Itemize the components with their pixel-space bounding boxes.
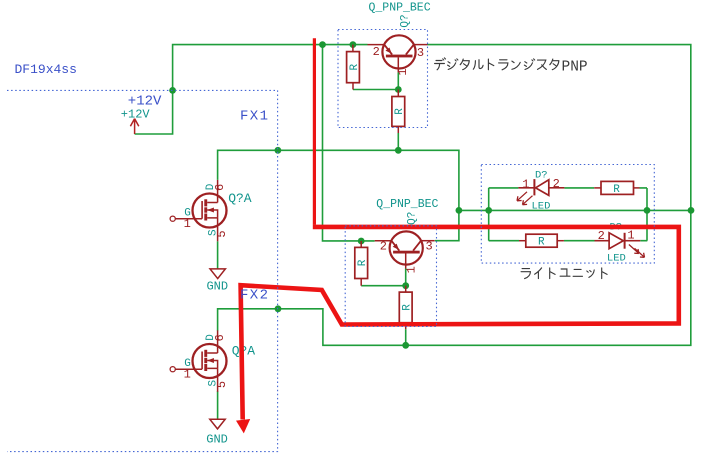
svg-text:6: 6 <box>213 184 227 191</box>
svg-text:2: 2 <box>380 239 387 253</box>
svg-text:Q_PNP_BEC: Q_PNP_BEC <box>376 198 438 211</box>
svg-text:1: 1 <box>405 266 419 273</box>
connector box DF19x4ss (dashed) <box>7 90 278 451</box>
wire LED row 2 <box>489 240 648 242</box>
svg-text:5: 5 <box>215 381 229 388</box>
note text light unit (katakana strokes) <box>521 268 607 279</box>
wire M1 source to GND <box>217 241 219 269</box>
transistor M1 Q?A (NMOS top) <box>170 180 226 241</box>
wire LED row 1 <box>489 187 647 189</box>
svg-text:GND: GND <box>206 280 228 294</box>
svg-text:1: 1 <box>627 229 634 243</box>
transistor Q2 Q_PNP_BEC (middle) <box>375 231 435 268</box>
junction LED rail left <box>456 207 463 214</box>
junction LED box left vertical <box>485 207 492 214</box>
イ <box>535 268 542 279</box>
ジ <box>448 59 458 70</box>
ト <box>550 268 555 279</box>
svg-text:LED: LED <box>532 201 551 213</box>
svg-text:GND: GND <box>206 432 228 446</box>
wire LED unit left vertical <box>488 188 490 241</box>
ン <box>512 61 520 69</box>
ニ <box>573 269 582 276</box>
ト <box>488 59 493 70</box>
ground GND2 symbol <box>210 419 225 429</box>
junction LED box right vertical <box>644 207 651 214</box>
svg-text:2: 2 <box>553 177 560 191</box>
svg-text:Q?: Q? <box>399 14 411 27</box>
svg-text:R: R <box>357 259 369 266</box>
wire FX1 from M1 drain to LED rail and Q2 collector <box>218 150 459 240</box>
ground GND1 symbol <box>210 269 225 279</box>
svg-text:LED: LED <box>607 252 626 264</box>
LED D1 (top, pointing left) <box>517 179 564 205</box>
wire R1 bottom to Q1 base junction <box>353 72 398 89</box>
svg-text:R: R <box>613 184 620 196</box>
junction FX2 on connector box edge <box>275 305 282 312</box>
wire M2 source to GND <box>217 391 219 419</box>
ス <box>538 60 547 69</box>
svg-text:6: 6 <box>213 334 227 341</box>
svg-text:1: 1 <box>396 68 410 75</box>
junction bottom rail / R4 <box>402 342 409 349</box>
svg-text:Q?A: Q?A <box>228 191 252 206</box>
ッ <box>587 270 594 277</box>
box Q1 digital transistor (dashed) <box>338 30 428 128</box>
resistor R6 (LED row 2) <box>519 234 564 248</box>
power symbol +12V <box>130 119 138 134</box>
svg-text:R: R <box>402 304 414 311</box>
ル <box>473 60 483 69</box>
junction FX1 on connector box edge <box>275 147 282 154</box>
junction Q2 emitter rail / R3 top <box>358 238 365 245</box>
resistor R5 (LED row 1) <box>594 181 639 195</box>
resistor R1 (Q1 base-emitter) <box>347 45 361 90</box>
svg-text:R: R <box>349 64 361 71</box>
annotation red arrowhead <box>236 419 250 433</box>
svg-text:R: R <box>538 237 545 249</box>
デ <box>435 58 446 70</box>
note text digital transistor PNP (katakana strokes) <box>435 58 559 70</box>
wire R4 bottom to bottom rail <box>405 329 407 345</box>
svg-text:3: 3 <box>417 46 424 60</box>
svg-text:1: 1 <box>522 178 529 192</box>
wire LED unit right vertical <box>646 188 648 241</box>
svg-text:1: 1 <box>184 368 191 382</box>
svg-text:R: R <box>394 108 406 115</box>
ジ <box>524 59 534 70</box>
wire +12V symbol to +12V rail <box>135 45 368 134</box>
resistor R2 (Q1 base series) <box>392 90 406 134</box>
ト <box>602 268 607 279</box>
resistor R3 (Q2 base-emitter) <box>355 241 369 286</box>
transistor M2 Q?A (NMOS bottom) <box>170 330 226 391</box>
svg-text:1: 1 <box>184 217 191 231</box>
junction +12V on connector box edge <box>169 87 176 94</box>
transistor Q1 Q_PNP_BEC (top) <box>368 35 428 72</box>
svg-text:5: 5 <box>215 230 229 237</box>
junction FX1 / R2 bottom <box>395 147 402 154</box>
svg-text:D?: D? <box>535 170 548 182</box>
box LED unit (dashed) <box>481 165 654 264</box>
svg-text:Q?: Q? <box>407 212 419 225</box>
svg-text:2: 2 <box>373 45 380 59</box>
svg-text:DF19x4ss: DF19x4ss <box>15 62 77 77</box>
svg-text:PNP: PNP <box>562 60 588 76</box>
svg-text:FX1: FX1 <box>240 108 269 124</box>
junction Q2 base / R3 / R4 <box>402 282 409 289</box>
junction Q1 base / R1 / R2 <box>395 86 402 93</box>
svg-text:3: 3 <box>425 240 432 254</box>
svg-text:Q_PNP_BEC: Q_PNP_BEC <box>369 1 431 14</box>
ラ <box>499 60 508 70</box>
wire R2 bottom to FX1 wire <box>397 133 399 150</box>
ラ <box>521 269 530 279</box>
svg-text:2: 2 <box>598 229 605 243</box>
LED D2 (bottom, pointing right) <box>595 233 645 257</box>
タ <box>460 59 469 70</box>
svg-text:FX2: FX2 <box>240 287 269 303</box>
wire R3 bottom to Q2 base junction <box>361 269 406 286</box>
タ <box>550 59 559 70</box>
junction +12V rail / R1 top <box>350 41 357 48</box>
wire Q1 collector to right rail down to bottom rail and FX2 wire <box>218 45 691 346</box>
wire LED unit main rail <box>459 209 694 211</box>
box Q2 digital transistor (dashed) <box>345 226 436 327</box>
svg-text:+12V: +12V <box>121 107 151 121</box>
junction LED rail right <box>688 207 695 214</box>
annotation red highlight path <box>313 38 316 225</box>
wire +12V rail down to Q2 emitter <box>323 45 375 241</box>
resistor R4 (Q2 base series) <box>399 286 413 330</box>
junction +12V rail / Q2 emitter drop <box>319 41 326 48</box>
ユ <box>560 269 570 276</box>
